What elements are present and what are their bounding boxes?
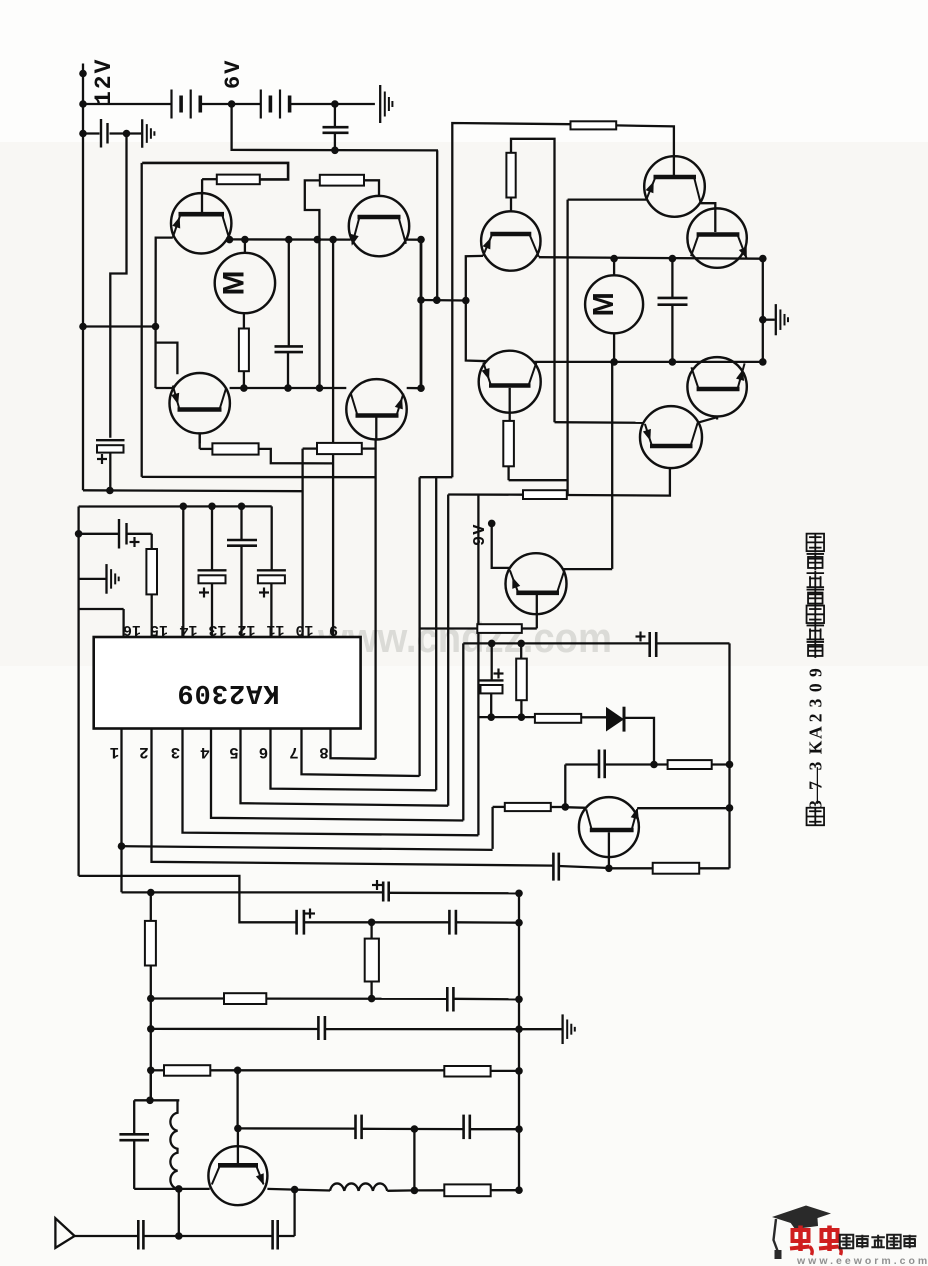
svg-text:16: 16 bbox=[123, 621, 141, 638]
svg-text:7: 7 bbox=[289, 743, 299, 761]
svg-text:9V: 9V bbox=[471, 524, 490, 546]
svg-text:12V: 12V bbox=[91, 58, 117, 105]
svg-text:0: 0 bbox=[805, 683, 825, 692]
svg-text:M: M bbox=[218, 271, 251, 296]
svg-text:12: 12 bbox=[237, 621, 255, 638]
svg-text:14: 14 bbox=[179, 621, 197, 638]
svg-text:6V: 6V bbox=[221, 59, 246, 89]
svg-text:KA2309: KA2309 bbox=[176, 677, 279, 707]
svg-text:A: A bbox=[805, 726, 825, 739]
svg-text:15: 15 bbox=[150, 621, 168, 638]
svg-text:3: 3 bbox=[171, 743, 181, 761]
svg-text:1: 1 bbox=[110, 743, 120, 761]
svg-text:www.eeworm.com: www.eeworm.com bbox=[796, 1255, 928, 1266]
svg-text:5: 5 bbox=[229, 743, 239, 761]
svg-text:6: 6 bbox=[259, 743, 269, 761]
svg-text:2: 2 bbox=[139, 743, 149, 761]
svg-text:4: 4 bbox=[200, 743, 210, 761]
svg-text:K: K bbox=[805, 740, 825, 754]
svg-text:3: 3 bbox=[805, 698, 825, 707]
svg-text:M: M bbox=[588, 292, 620, 316]
svg-text:11: 11 bbox=[266, 621, 284, 638]
svg-text:13: 13 bbox=[208, 621, 226, 638]
svg-text:10: 10 bbox=[295, 621, 313, 638]
svg-text:9: 9 bbox=[329, 621, 338, 638]
svg-text:2: 2 bbox=[805, 714, 825, 723]
svg-text:9: 9 bbox=[805, 668, 825, 677]
svg-text:8: 8 bbox=[319, 743, 329, 761]
